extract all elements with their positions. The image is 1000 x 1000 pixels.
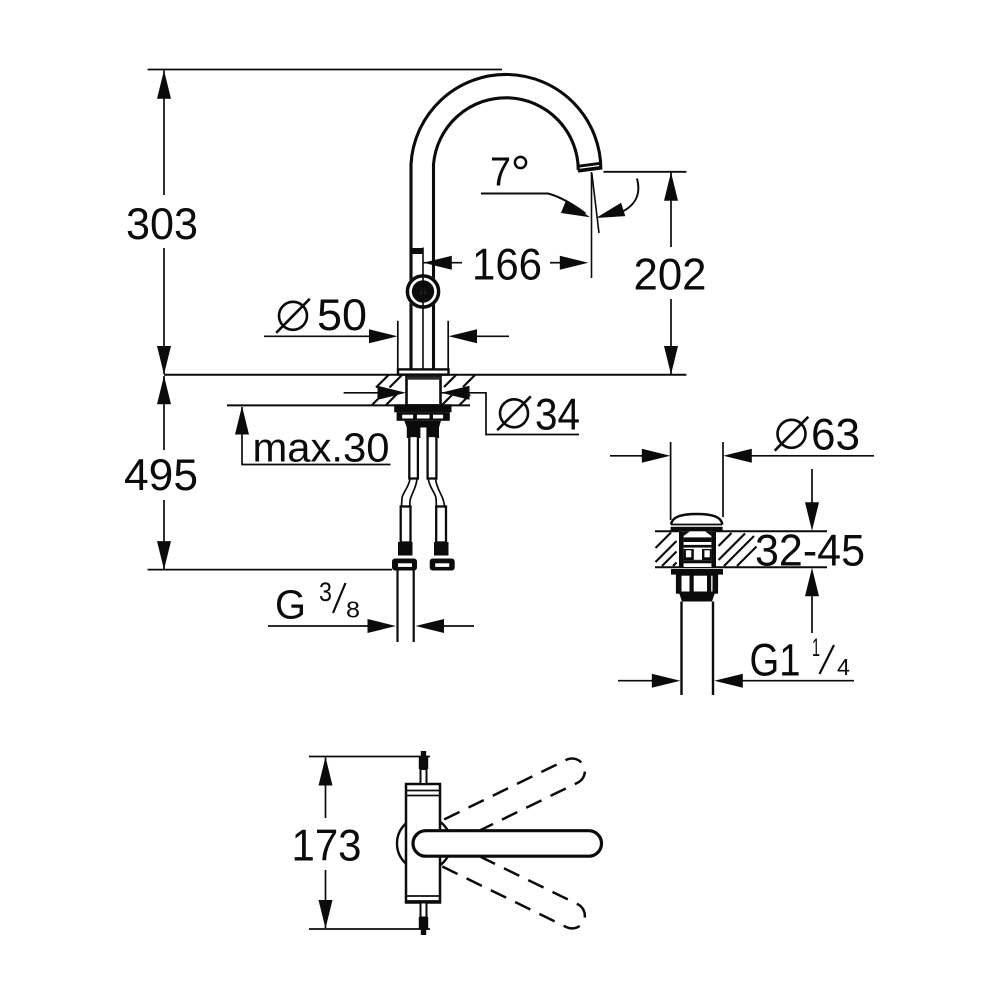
drain cap rim bbox=[671, 527, 723, 531]
svg-text:3: 3 bbox=[319, 577, 332, 607]
dimension 173 line bbox=[325, 758, 327, 819]
shank taper block bbox=[404, 421, 441, 428]
dimension D34 line right + leader bbox=[441, 393, 579, 435]
flexible hose curve right bbox=[428, 479, 436, 506]
drain flange under basin bbox=[671, 569, 723, 575]
faucet body (top view) bbox=[406, 784, 440, 903]
supply tube right bbox=[428, 436, 437, 479]
svg-text:4: 4 bbox=[837, 654, 850, 680]
dimension 32-45 line bottom bbox=[811, 594, 813, 633]
handle button inner disc bbox=[412, 280, 434, 302]
angle annotation leader left bbox=[481, 194, 586, 214]
extension line top (spout height reference) bbox=[148, 69, 503, 71]
dimension 202 line bbox=[670, 173, 672, 248]
svg-text:G: G bbox=[275, 582, 306, 628]
svg-text:63: 63 bbox=[811, 411, 860, 460]
riser axis tick bbox=[411, 248, 423, 254]
svg-text:495: 495 bbox=[124, 451, 198, 500]
dimension D50 text bbox=[279, 302, 307, 330]
hose crimp right bbox=[434, 542, 449, 556]
seal under flange bbox=[406, 376, 440, 379]
dimension D34 text bbox=[500, 399, 528, 427]
hose end body left bbox=[401, 507, 411, 543]
shank top dark line bbox=[407, 377, 441, 380]
faucet spout inner arc bbox=[434, 98, 579, 170]
drain cap dome bbox=[671, 514, 722, 525]
dimension D50 line right bbox=[475, 335, 509, 337]
svg-text:32-45: 32-45 bbox=[755, 527, 865, 576]
svg-text:173: 173 bbox=[292, 822, 362, 871]
top pin (top view) bbox=[421, 769, 427, 784]
solid spout (top view) bbox=[413, 831, 602, 857]
countertop hatch left bbox=[372, 375, 402, 405]
drain nut bbox=[677, 575, 717, 593]
spout aerator outlet band bbox=[578, 168, 602, 171]
handle button outer ring bbox=[407, 276, 438, 307]
basin hatch right bbox=[719, 533, 757, 566]
dimension 166 line bbox=[423, 262, 462, 264]
dimension D63 line bbox=[610, 455, 644, 457]
faucet spout outer arc bbox=[411, 74, 601, 169]
mounting shank through deck (white square) bbox=[407, 377, 441, 405]
svg-text:166: 166 bbox=[472, 241, 542, 290]
handle button mask bbox=[406, 274, 441, 309]
flexible hose curve left bbox=[402, 479, 411, 506]
dimension D50 line left bbox=[264, 335, 371, 337]
svg-text:7: 7 bbox=[490, 149, 511, 195]
svg-text:202: 202 bbox=[634, 251, 707, 300]
dimension max.30 underline bbox=[241, 464, 390, 466]
locknut flange (black band) bbox=[394, 404, 451, 412]
svg-text:max.30: max.30 bbox=[253, 425, 390, 471]
G3/8 connector pipe below reference line bbox=[396, 571, 398, 643]
faucet riser inner line bbox=[432, 164, 435, 370]
svg-text:8: 8 bbox=[346, 597, 360, 623]
dimension D34 line left bbox=[344, 392, 378, 394]
faucet centerline bbox=[422, 248, 424, 375]
bottom reference line (hose connection plane) bbox=[148, 569, 393, 571]
countertop top line (front view) bbox=[164, 374, 686, 376]
svg-text:1: 1 bbox=[812, 634, 820, 662]
hose crimp left bbox=[398, 542, 413, 556]
dashed spout position lower bbox=[409, 827, 590, 933]
dimension G1 1/4 line bbox=[618, 680, 654, 682]
dimension 495 line bbox=[163, 376, 165, 450]
svg-text:50: 50 bbox=[317, 291, 367, 340]
dimension D63 text bbox=[778, 420, 806, 448]
outlet axis extension line bbox=[591, 172, 593, 278]
dimension 32-45 line top bbox=[811, 469, 813, 505]
hose sockets (black columns) bbox=[407, 428, 421, 439]
extension line spout outlet (202 reference) bbox=[604, 171, 687, 173]
drain taper bbox=[679, 593, 715, 602]
handle button glyph bbox=[419, 287, 427, 295]
dashed spout position upper bbox=[409, 754, 590, 860]
dimension G3/8 line right bbox=[442, 625, 474, 627]
hose nut flange left bbox=[392, 559, 417, 571]
faucet riser outer line bbox=[409, 164, 412, 370]
supply tube left bbox=[409, 436, 418, 479]
dimension 303 line bbox=[163, 71, 165, 196]
dimension G3/8 line left bbox=[268, 625, 370, 627]
drain extension lines (D63) bbox=[670, 442, 672, 520]
locknut flats (white slots) bbox=[402, 415, 413, 419]
dimension D50 extension lines bbox=[397, 321, 399, 369]
basin top line (right drawing) bbox=[655, 530, 827, 532]
base flange (Ø50) bbox=[398, 369, 449, 374]
svg-text:G1: G1 bbox=[750, 635, 801, 686]
drain tailpipe bbox=[680, 602, 682, 696]
top view extension line lower bbox=[309, 928, 430, 930]
dimension max.30 leader arrow bbox=[241, 407, 243, 465]
basin bottom line (right drawing) bbox=[655, 566, 827, 568]
basin hatch left bbox=[656, 533, 677, 567]
swivel circle (top view) bbox=[397, 817, 451, 871]
countertop hatch right bbox=[442, 375, 475, 405]
countertop bottom line (front view) bbox=[227, 404, 470, 406]
centerline over button bbox=[422, 274, 424, 309]
hose nut flange right bbox=[430, 559, 455, 571]
bottom pin (top view) bbox=[421, 903, 427, 918]
spout aerator face seam bbox=[578, 163, 602, 166]
drain body through basin bbox=[679, 531, 716, 567]
top view extension line upper bbox=[309, 756, 430, 758]
svg-text:34: 34 bbox=[535, 391, 580, 440]
svg-text:303: 303 bbox=[126, 200, 198, 249]
hose end body right bbox=[436, 507, 446, 543]
angle annotation leader right bbox=[612, 179, 638, 217]
locknut body bbox=[397, 412, 450, 421]
outlet tilted 7deg line bbox=[592, 173, 599, 233]
